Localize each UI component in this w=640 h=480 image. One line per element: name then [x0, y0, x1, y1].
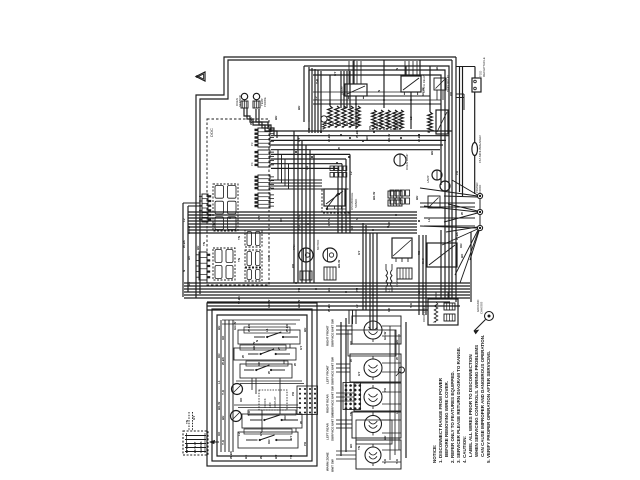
svg-text:TN: TN: [185, 420, 189, 424]
svg-text:15A MINI-BREAKER: 15A MINI-BREAKER: [478, 134, 482, 163]
svg-text:TN: TN: [237, 258, 241, 262]
svg-text:GR-W: GR-W: [421, 88, 425, 96]
svg-text:LEFT FRONT: LEFT FRONT: [326, 365, 330, 384]
svg-text:4. CAUTION:: 4. CAUTION:: [462, 435, 467, 463]
svg-text:SURFACE UNIT SW: SURFACE UNIT SW: [331, 413, 335, 441]
svg-text:SPARK: SPARK: [354, 199, 358, 208]
svg-text:W-BK: W-BK: [247, 323, 251, 332]
svg-text:N: N: [182, 270, 186, 272]
svg-text:PU: PU: [449, 92, 453, 96]
svg-text:PROBE: PROBE: [263, 97, 267, 107]
svg-text:Y-R: Y-R: [315, 78, 319, 84]
svg-text:P4: P4: [250, 162, 254, 166]
svg-text:GR-W: GR-W: [233, 322, 237, 330]
svg-text:W: W: [395, 357, 399, 360]
svg-text:2. REFER ONLY TO FEATURES EQUI: 2. REFER ONLY TO FEATURES EQUIPPED.: [450, 371, 455, 463]
svg-text:LAMP: LAMP: [426, 175, 430, 183]
svg-text:P9 GND: P9 GND: [185, 443, 189, 453]
svg-text:ERC: ERC: [268, 402, 272, 408]
svg-text:SURFACE UNIT SW: SURFACE UNIT SW: [331, 386, 335, 414]
svg-text:Y-R: Y-R: [297, 224, 301, 230]
svg-text:3. SERVICER PLEASE RETURN DIAG: 3. SERVICER PLEASE RETURN DIAGRAM TO RAN…: [456, 347, 461, 463]
svg-text:RIGHT FRONT: RIGHT FRONT: [326, 325, 330, 346]
svg-text:GR-W: GR-W: [267, 300, 271, 308]
svg-text:BU: BU: [274, 455, 278, 459]
svg-text:TN: TN: [349, 412, 353, 416]
svg-text:MOTOR: MOTOR: [316, 240, 320, 250]
svg-text:DISPLAY: DISPLAY: [273, 396, 277, 408]
svg-text:W: W: [460, 212, 464, 215]
svg-text:W-BK: W-BK: [327, 133, 331, 142]
svg-text:W-BK: W-BK: [327, 303, 331, 312]
svg-text:DOC: DOC: [209, 128, 214, 137]
svg-text:Y-R: Y-R: [221, 439, 225, 445]
svg-text:GR-W: GR-W: [395, 122, 399, 130]
svg-text:BR-W: BR-W: [217, 402, 221, 410]
svg-text:GY: GY: [333, 72, 337, 76]
svg-text:TN: TN: [297, 288, 301, 292]
svg-text:CHASSIS: CHASSIS: [480, 302, 484, 314]
svg-text:PU: PU: [389, 126, 393, 130]
svg-text:1. DISCONNECT RANGE FROM POWER: 1. DISCONNECT RANGE FROM POWER: [438, 377, 443, 463]
svg-text:Y-R: Y-R: [297, 214, 301, 220]
svg-text:W: W: [277, 347, 281, 350]
svg-text:TN: TN: [357, 446, 361, 450]
svg-text:DOOR LOCK: DOOR LOCK: [422, 305, 426, 322]
svg-text:BEFORE REMOVING WIRE COVER.: BEFORE REMOVING WIRE COVER.: [444, 381, 449, 457]
svg-text:BAKE RELAY: BAKE RELAY: [446, 75, 450, 92]
svg-text:GY: GY: [289, 436, 293, 440]
svg-text:XFMR: XFMR: [395, 279, 399, 287]
svg-text:GR-W: GR-W: [383, 332, 387, 340]
svg-text:GY: GY: [299, 346, 303, 350]
svg-text:N: N: [395, 68, 399, 70]
svg-text:PU: PU: [383, 388, 387, 392]
svg-text:W-BK: W-BK: [182, 239, 186, 248]
svg-text:BR-W: BR-W: [387, 134, 391, 142]
svg-text:W: W: [259, 456, 263, 459]
svg-text:N: N: [355, 218, 359, 220]
svg-text:BU: BU: [303, 328, 307, 332]
svg-text:GY: GY: [357, 372, 361, 376]
svg-text:PU: PU: [368, 126, 372, 130]
svg-text:BU: BU: [217, 326, 221, 330]
svg-text:L2: L2: [417, 290, 421, 294]
svg-text:W: W: [241, 355, 245, 358]
svg-text:W-BK: W-BK: [455, 231, 459, 240]
svg-text:BR-W: BR-W: [337, 260, 341, 268]
svg-text:W-BK: W-BK: [221, 356, 225, 365]
svg-text:BU: BU: [430, 151, 434, 155]
svg-text:OVEN LAMP: OVEN LAMP: [405, 154, 409, 170]
svg-text:RECEPTACLE: RECEPTACLE: [482, 57, 486, 77]
svg-text:W: W: [349, 359, 353, 362]
svg-text:PU: PU: [303, 442, 307, 446]
svg-text:L1: L1: [217, 380, 221, 384]
svg-text:SURFACE UNIT SW: SURFACE UNIT SW: [331, 357, 335, 385]
svg-text:RIGHT REAR: RIGHT REAR: [326, 394, 330, 414]
svg-text:W: W: [342, 93, 346, 96]
svg-text:W: W: [337, 147, 341, 150]
svg-text:L2: L2: [395, 410, 399, 414]
svg-text:W-BK: W-BK: [355, 129, 359, 138]
svg-text:N: N: [377, 90, 381, 92]
svg-text:GY: GY: [192, 416, 196, 420]
svg-text:BU: BU: [435, 66, 439, 70]
svg-text:NOTICE:: NOTICE:: [432, 444, 437, 463]
svg-text:W: W: [299, 421, 303, 424]
svg-text:UNIT SW: UNIT SW: [331, 459, 335, 472]
svg-text:BU: BU: [415, 196, 419, 200]
svg-text:CORD: CORD: [478, 185, 482, 193]
svg-text:W-BK: W-BK: [229, 450, 233, 459]
svg-text:N: N: [357, 118, 361, 120]
svg-text:BU: BU: [383, 436, 387, 440]
svg-text:PU: PU: [305, 166, 309, 170]
svg-text:L2: L2: [349, 171, 353, 175]
svg-text:TN: TN: [289, 455, 293, 459]
svg-text:W-BK: W-BK: [375, 121, 379, 130]
svg-text:BR-W: BR-W: [372, 192, 376, 200]
svg-text:CLOCK: CLOCK: [263, 398, 267, 408]
svg-text:BU: BU: [196, 246, 200, 250]
svg-text:GY: GY: [297, 138, 301, 142]
svg-text:Y-R: Y-R: [395, 458, 399, 464]
svg-text:TN: TN: [202, 242, 206, 246]
svg-text:TN: TN: [237, 236, 241, 240]
svg-text:GY: GY: [357, 251, 361, 255]
svg-text:W-BK: W-BK: [249, 116, 253, 125]
svg-text:L2: L2: [182, 218, 186, 222]
svg-text:BU: BU: [221, 416, 225, 420]
svg-text:5. VERIFY PROPER OPERATION AFT: 5. VERIFY PROPER OPERATION AFTER SERVICI…: [486, 351, 491, 463]
svg-text:L1: L1: [387, 288, 391, 292]
svg-text:GY: GY: [257, 216, 261, 220]
svg-text:L2: L2: [409, 116, 413, 120]
svg-text:W: W: [267, 371, 271, 374]
svg-text:BU: BU: [395, 340, 399, 344]
svg-text:Y-R: Y-R: [409, 302, 413, 308]
svg-text:W: W: [382, 127, 386, 130]
svg-text:LABEL ALL WIRES PRIOR TO DISCO: LABEL ALL WIRES PRIOR TO DISCONNECTION: [468, 354, 473, 457]
svg-text:W-BK: W-BK: [417, 133, 421, 142]
svg-text:TN: TN: [327, 218, 331, 222]
svg-text:PU: PU: [291, 392, 295, 396]
svg-text:LEFT REAR: LEFT REAR: [326, 422, 330, 440]
svg-text:PU: PU: [355, 288, 359, 292]
svg-text:BR-W: BR-W: [297, 300, 301, 308]
svg-text:BU: BU: [338, 122, 342, 126]
svg-text:N: N: [255, 340, 259, 342]
svg-text:W-BK: W-BK: [285, 323, 289, 332]
svg-text:L2: L2: [355, 304, 359, 308]
svg-text:Y-R: Y-R: [221, 389, 225, 395]
svg-text:BU: BU: [345, 122, 349, 126]
svg-text:Y-R: Y-R: [383, 458, 387, 464]
svg-text:SURFACE UNIT SW: SURFACE UNIT SW: [331, 319, 335, 347]
svg-text:PU: PU: [324, 122, 328, 126]
svg-text:SENSOR: SENSOR: [238, 95, 242, 107]
svg-text:WHEN SERVICING CONTROLS. WIRIN: WHEN SERVICING CONTROLS. WIRING PROBLEMS: [474, 345, 479, 457]
svg-text:CHASSIS: CHASSIS: [199, 441, 203, 453]
svg-text:L1: L1: [265, 328, 269, 332]
svg-text:WARM ZONE: WARM ZONE: [326, 452, 330, 471]
svg-text:W: W: [293, 363, 297, 366]
svg-text:GY: GY: [327, 222, 331, 226]
svg-text:BK W GY: BK W GY: [193, 441, 197, 453]
svg-text:BR-W: BR-W: [187, 226, 191, 234]
svg-text:CAN CAUSE IMPROPER AND DANGERO: CAN CAUSE IMPROPER AND DANGEROUS OPERATI…: [480, 335, 485, 457]
svg-text:L1: L1: [427, 218, 431, 222]
svg-text:PU: PU: [291, 264, 295, 268]
svg-text:BU: BU: [297, 106, 301, 110]
svg-text:GY: GY: [259, 432, 263, 436]
svg-text:BU: BU: [274, 116, 278, 120]
svg-text:L2: L2: [237, 432, 241, 436]
svg-text:Y-R: Y-R: [247, 410, 251, 416]
svg-text:P3: P3: [250, 142, 254, 146]
svg-text:DLB: DLB: [421, 258, 425, 264]
svg-text:FAN: FAN: [292, 245, 296, 250]
svg-text:L2: L2: [314, 96, 318, 100]
svg-text:PU: PU: [455, 171, 459, 175]
